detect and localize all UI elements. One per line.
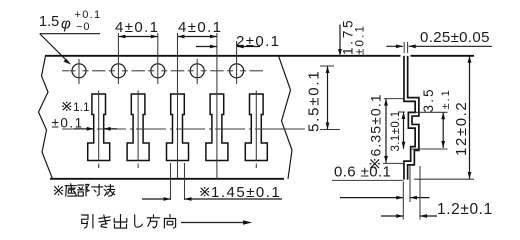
svg-text:0.25±0.05: 0.25±0.05 bbox=[420, 29, 490, 46]
svg-text:4±0.1: 4±0.1 bbox=[178, 19, 222, 36]
svg-text:−0: −0 bbox=[76, 21, 91, 33]
svg-text:6.35±0.1: 6.35±0.1 bbox=[368, 93, 384, 156]
svg-text:±.1: ±.1 bbox=[440, 88, 452, 109]
svg-text:1.1: 1.1 bbox=[73, 100, 90, 114]
svg-text:1.5: 1.5 bbox=[39, 14, 59, 30]
svg-text:±0.1: ±0.1 bbox=[355, 24, 367, 55]
svg-text:5.5±0.1: 5.5±0.1 bbox=[306, 69, 323, 132]
svg-text:1.2±0.1: 1.2±0.1 bbox=[437, 201, 493, 218]
svg-text:+0.1: +0.1 bbox=[75, 9, 102, 21]
svg-text:φ: φ bbox=[61, 16, 71, 33]
svg-text:3.1±0.1: 3.1±0.1 bbox=[390, 110, 402, 151]
svg-text:12±0.2: 12±0.2 bbox=[453, 101, 470, 156]
svg-text:3.5: 3.5 bbox=[421, 87, 436, 112]
svg-text:4±0.1: 4±0.1 bbox=[115, 19, 159, 36]
svg-text:0.6 ±0.1: 0.6 ±0.1 bbox=[334, 164, 391, 181]
svg-text:1.75: 1.75 bbox=[341, 18, 356, 55]
